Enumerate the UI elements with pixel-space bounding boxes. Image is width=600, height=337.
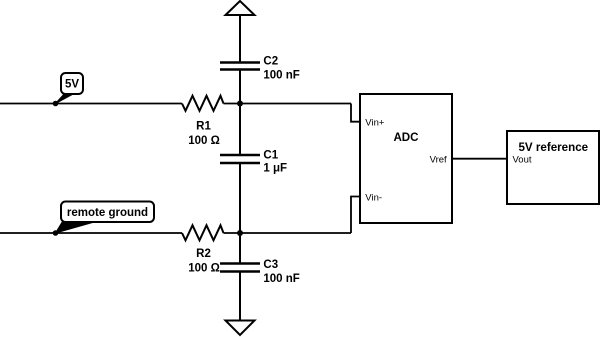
node: bottom junction — [237, 230, 243, 236]
svg-text:Vin+: Vin+ — [365, 117, 385, 128]
svg-text:5V reference: 5V reference — [518, 141, 588, 154]
wire: supply flag to C2 — [239, 15, 241, 63]
capacitor C1 — [220, 155, 260, 163]
5V reference block — [507, 131, 599, 204]
svg-text:Vref: Vref — [430, 155, 447, 166]
resistor R1 — [182, 96, 224, 111]
capacitor C3 — [220, 264, 260, 272]
label R1 100 Ω — [188, 120, 220, 147]
label C2 100 nF — [263, 56, 299, 82]
svg-text:C1: C1 — [263, 150, 278, 162]
wire: R2 to ADC step — [224, 232, 352, 234]
resistor R2 — [182, 225, 224, 240]
wire: Vref to 5V reference — [452, 158, 507, 160]
wire: R1 to ADC step — [224, 103, 352, 105]
ground — [226, 321, 255, 336]
wire: C2 to top node — [239, 70, 241, 104]
wire: C1 to bottom node — [239, 163, 241, 233]
svg-text:R2: R2 — [196, 248, 211, 260]
svg-text:ADC: ADC — [393, 131, 419, 144]
svg-text:100 Ω: 100 Ω — [188, 262, 220, 274]
label C1 1 µF — [263, 150, 287, 175]
svg-text:C3: C3 — [263, 259, 278, 271]
callout 5V — [53, 73, 83, 106]
svg-text:1 μF: 1 μF — [263, 163, 287, 175]
power flag (top supply triangle) — [226, 1, 255, 15]
svg-text:5V: 5V — [65, 79, 79, 91]
svg-text:Vin-: Vin- — [365, 193, 382, 204]
wire: step up to Vin- pin — [351, 197, 360, 234]
wire: bottom node to C3 — [239, 233, 241, 264]
svg-text:C2: C2 — [263, 56, 278, 68]
wire: step down to Vin+ pin — [351, 104, 360, 122]
capacitor C2 — [220, 63, 260, 70]
svg-text:100 Ω: 100 Ω — [188, 135, 220, 147]
node: top junction — [237, 101, 243, 107]
wire: top rail left segment (5V input) — [0, 103, 182, 105]
wire: bottom rail left segment (remote ground input) — [0, 232, 182, 234]
wire: C3 to ground — [239, 272, 241, 321]
svg-text:100 nF: 100 nF — [263, 273, 299, 285]
svg-text:Vout: Vout — [513, 155, 532, 166]
wire: top node to C1 — [239, 104, 241, 156]
label R2 100 Ω — [188, 248, 220, 274]
svg-text:100 nF: 100 nF — [263, 69, 299, 81]
svg-text:R1: R1 — [196, 120, 211, 132]
op-amp U1: ADC block — [360, 94, 452, 223]
svg-text:remote ground: remote ground — [67, 207, 148, 219]
callout remote ground — [53, 202, 154, 236]
label C3 100 nF — [263, 259, 299, 285]
